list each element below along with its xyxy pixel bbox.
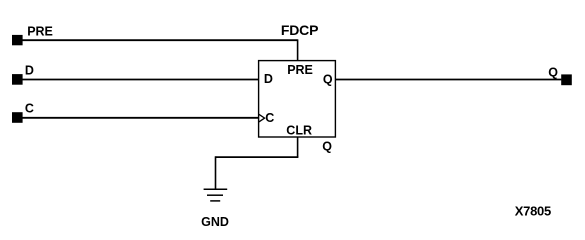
- svg-text:GND: GND: [201, 215, 229, 229]
- ground symbol: [204, 189, 228, 201]
- svg-text:PRE: PRE: [287, 63, 313, 77]
- input terminal C: [12, 112, 23, 123]
- svg-text:Q: Q: [323, 72, 333, 86]
- svg-text:D: D: [264, 72, 273, 86]
- wire PRE horizontal: [22, 39, 298, 41]
- wire to ground vertical: [215, 156, 217, 189]
- flip-flop U1 FDCP body: [259, 61, 336, 137]
- wire D: [22, 79, 259, 81]
- wire CLR horizontal: [216, 156, 299, 158]
- svg-text:D: D: [25, 63, 34, 77]
- svg-text:Q: Q: [548, 66, 558, 80]
- clock pin wedge: [259, 114, 265, 122]
- wire Q output: [335, 79, 561, 81]
- wire CLR vertical from pin: [297, 137, 299, 157]
- wire C: [22, 117, 259, 119]
- wire PRE vertical into top pin: [297, 39, 299, 61]
- svg-text:Q: Q: [322, 139, 332, 153]
- svg-text:C: C: [25, 102, 34, 116]
- svg-text:CLR: CLR: [286, 123, 312, 137]
- input terminal D: [12, 74, 23, 85]
- svg-text:C: C: [265, 111, 274, 125]
- svg-text:FDCP: FDCP: [281, 22, 318, 38]
- output terminal Q: [561, 74, 572, 85]
- input terminal PRE: [12, 35, 23, 45]
- svg-text:PRE: PRE: [27, 24, 53, 38]
- svg-text:X7805: X7805: [515, 204, 551, 219]
